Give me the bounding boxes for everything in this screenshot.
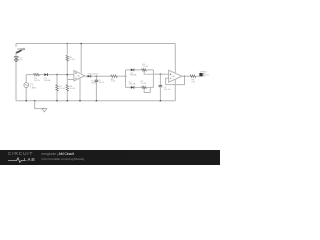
source V1 <box>24 83 29 88</box>
wire left rail lower <box>15 61 17 100</box>
node dot mid R2 <box>56 74 58 76</box>
resistor R8 <box>190 75 196 77</box>
node dot C1 <box>96 75 98 77</box>
svg-text:10 kΩ: 10 kΩ <box>69 59 75 61</box>
wire V1 branch vertical <box>25 75 27 101</box>
wire op1 vminus <box>79 78 81 101</box>
op-amp OA1 <box>74 71 85 81</box>
wire bridge top branch <box>126 69 154 71</box>
wire bottom rail <box>16 100 175 102</box>
svg-text:1 MHz: 1 MHz <box>30 87 36 89</box>
capacitor C2 <box>159 74 161 85</box>
wire op2 vplus corner <box>174 44 176 73</box>
wire stub to op1 inverting <box>67 79 74 81</box>
wire left rail upper <box>15 44 17 47</box>
wire op2 vminus <box>174 80 176 101</box>
wire op2 output <box>182 75 200 77</box>
diode D3 <box>131 69 134 72</box>
battery V2 <box>14 56 19 58</box>
wire op1 vplus <box>80 44 82 73</box>
node dot R2 bottom <box>56 100 58 102</box>
wire bridge right vertical <box>152 70 154 88</box>
resistor R4 <box>66 85 68 92</box>
node dot V1 bottom <box>25 100 27 102</box>
svg-text:10 nF: 10 nF <box>99 82 105 84</box>
svg-text:9 V: 9 V <box>19 60 23 62</box>
svg-text:100 Ω: 100 Ω <box>34 80 40 82</box>
node dot bridge in <box>125 75 127 77</box>
svg-text:100 nF: 100 nF <box>164 89 171 91</box>
svg-text:10 kΩ: 10 kΩ <box>59 88 65 90</box>
svg-text:1N34A: 1N34A <box>44 79 51 82</box>
resistor R5 <box>111 75 118 77</box>
wire bias branch <box>66 44 68 101</box>
resistor R3 <box>66 55 68 61</box>
svg-text:10 kΩ: 10 kΩ <box>141 83 147 85</box>
node dot bias bottom <box>67 100 69 102</box>
diode D1 <box>44 73 47 76</box>
wire mid left <box>26 74 74 76</box>
op-amp OA2 <box>169 70 182 82</box>
svg-text:SPKR1: SPKR1 <box>200 72 208 74</box>
capacitor C1 <box>95 76 97 80</box>
switch SW1 <box>16 50 22 53</box>
resistor R1 <box>33 73 39 75</box>
svg-text:1N34A: 1N34A <box>129 82 136 85</box>
svg-text:8 Ω: 8 Ω <box>205 74 209 76</box>
svg-text:1N34A: 1N34A <box>130 74 137 77</box>
CircuitLab logo <box>8 152 33 157</box>
svg-text:OA1 LM741: OA1 LM741 <box>88 73 100 76</box>
svg-text:10 kΩ: 10 kΩ <box>142 66 148 68</box>
diode D2 <box>88 75 91 78</box>
potentiometer R6 <box>142 69 147 71</box>
diode D4 <box>131 86 134 89</box>
node dot ground tap <box>34 100 36 102</box>
wire R2 branch <box>56 75 58 101</box>
wire bridge to op2 <box>153 73 168 75</box>
wire op1 output <box>85 75 111 77</box>
node dot C2 <box>160 73 162 75</box>
ground <box>35 101 45 109</box>
wire bridge bottom branch <box>126 86 154 88</box>
wire op2 feedback <box>166 76 185 84</box>
footer bar <box>0 150 220 165</box>
resistor R2 <box>56 85 58 92</box>
speaker SP1 <box>199 73 202 76</box>
wire R5 to bridge <box>117 75 125 77</box>
svg-text:10 kΩ: 10 kΩ <box>69 88 75 90</box>
node dot bias mid <box>67 74 69 76</box>
node dot bias top <box>67 43 69 45</box>
wire left rail mid <box>15 53 17 57</box>
wire top rail <box>16 43 175 45</box>
footer text <box>42 152 74 156</box>
svg-text:8 Ω: 8 Ω <box>192 82 196 84</box>
potentiometer R7 <box>142 86 147 88</box>
wire bridge left vertical <box>125 70 127 88</box>
svg-text:1 kΩ: 1 kΩ <box>111 81 116 83</box>
